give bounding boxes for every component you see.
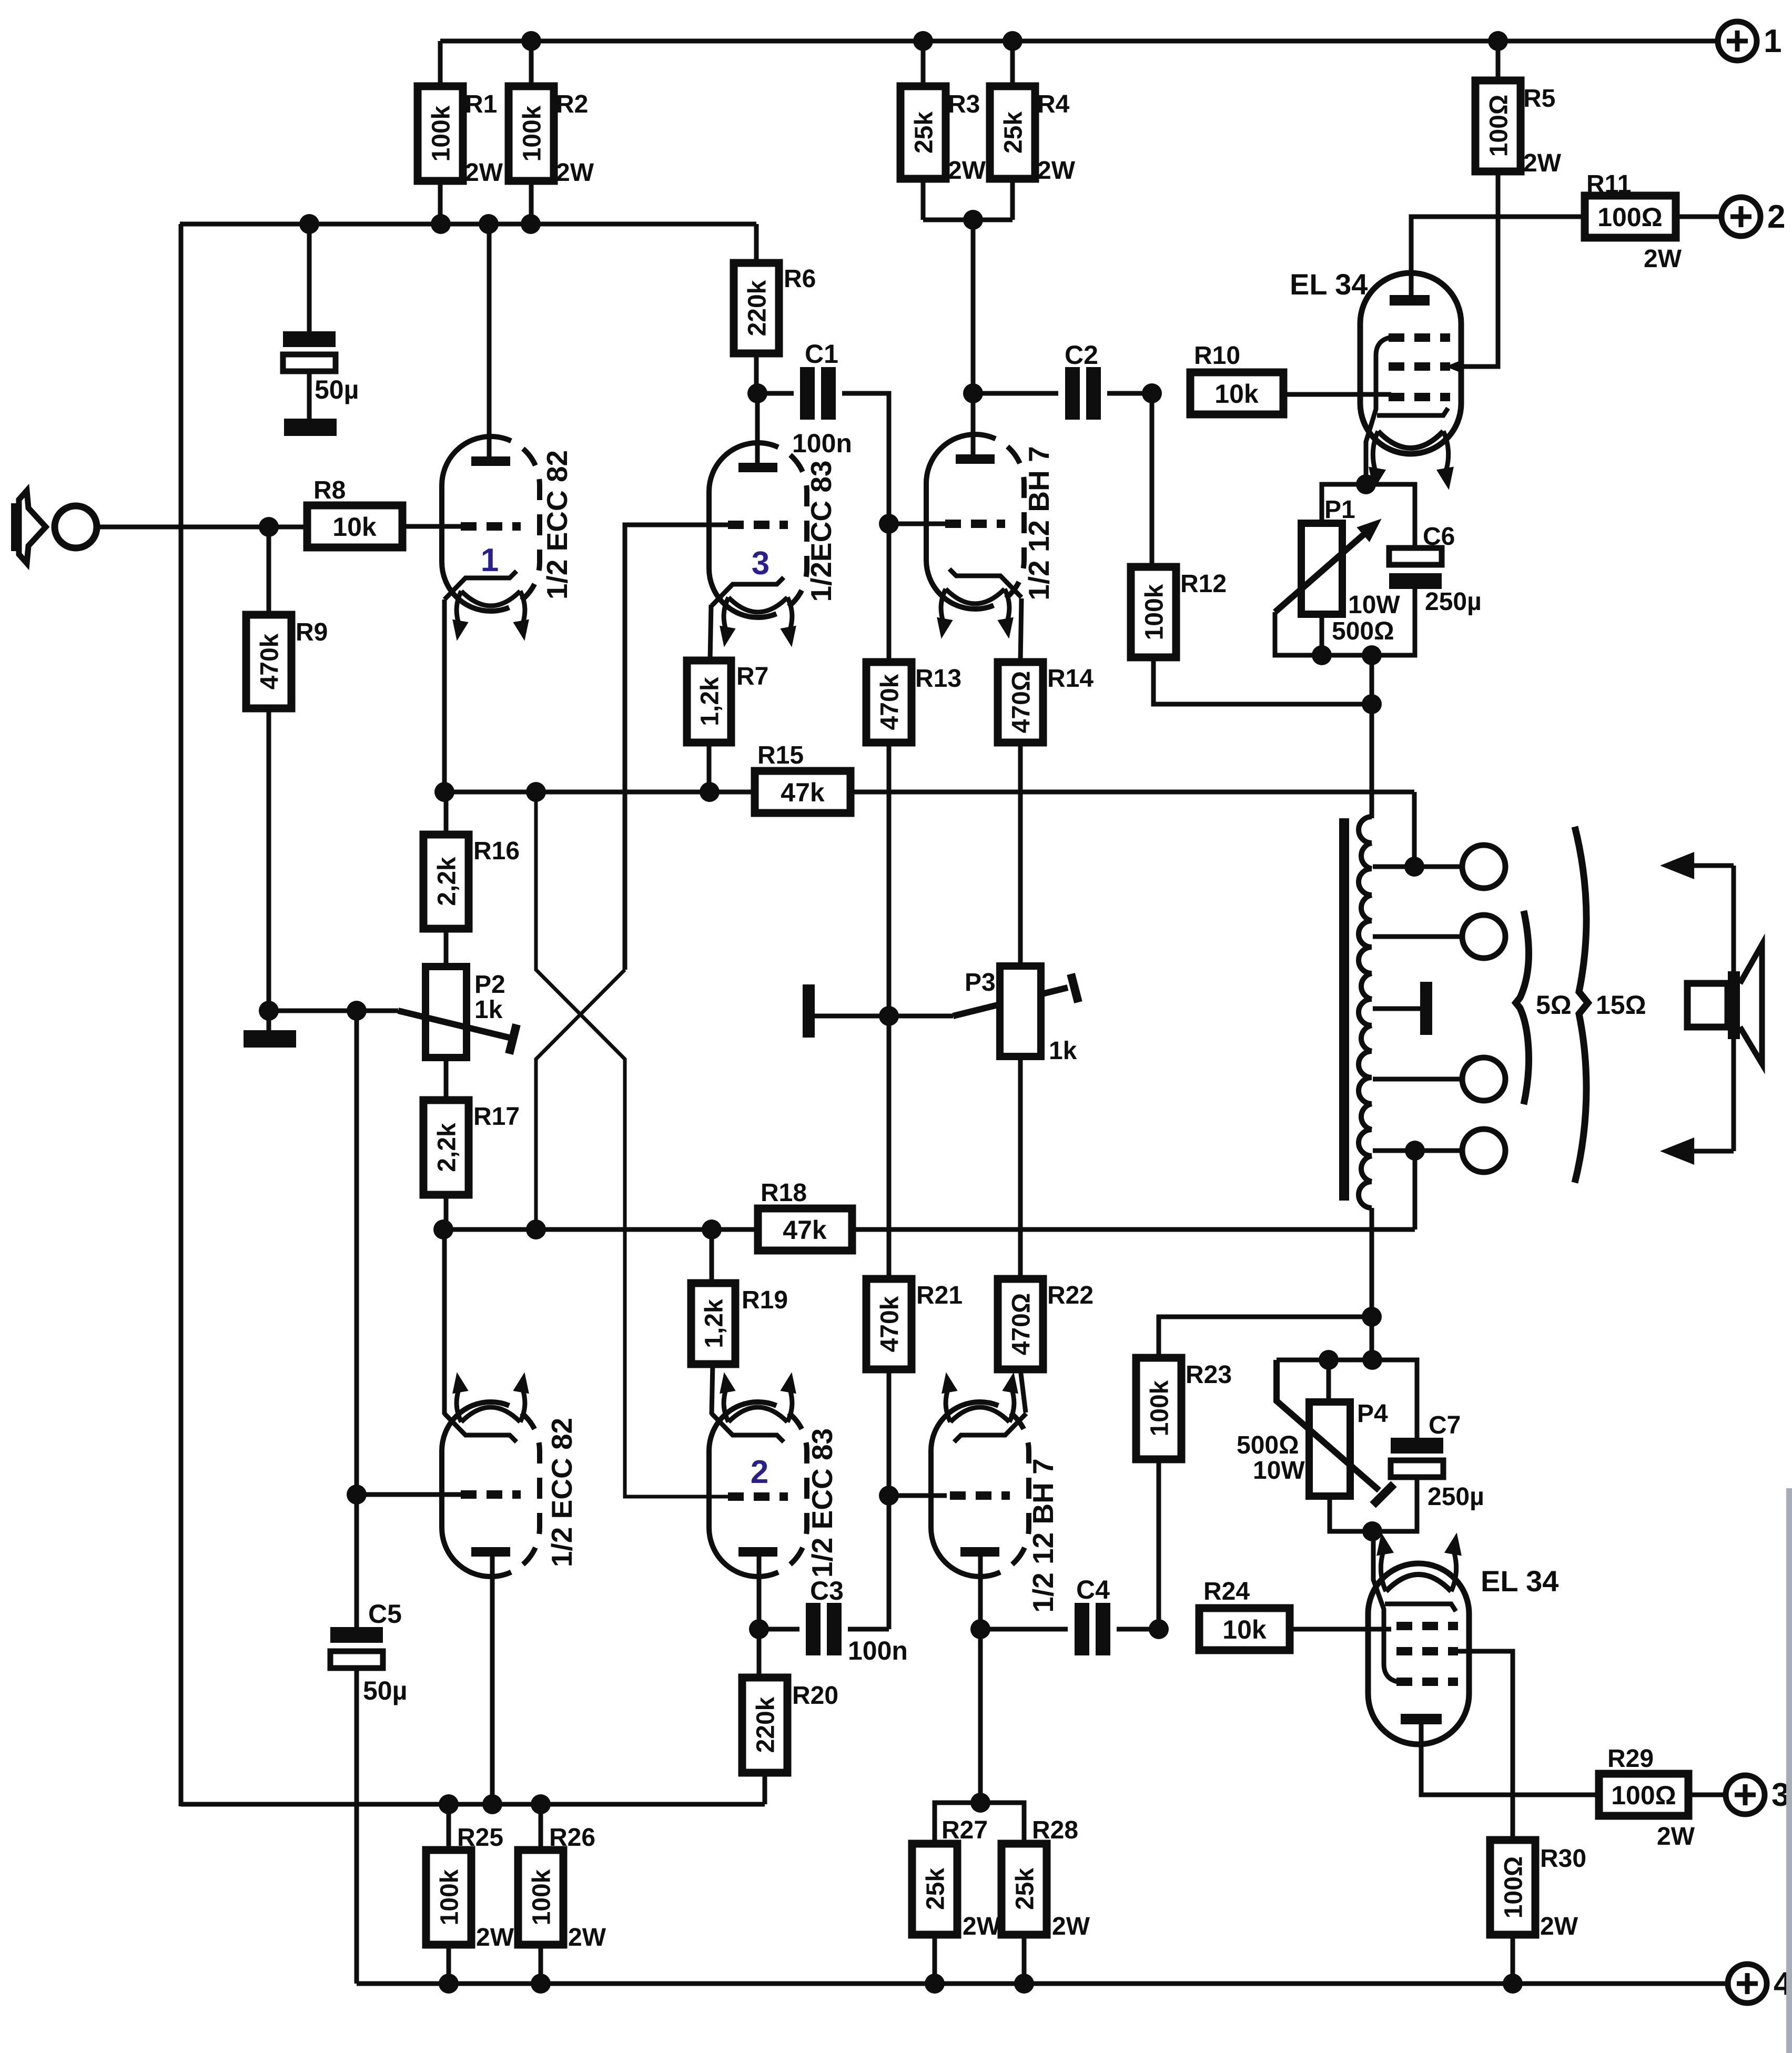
P4 bottom rail	[1330, 1477, 1417, 1531]
wire R5 to U1 g2	[1460, 171, 1498, 367]
svg-text:100n: 100n	[848, 1636, 908, 1665]
node rail/V2 anode	[482, 1794, 502, 1814]
tube V6 12BH7 lower	[931, 1402, 980, 1577]
wire R24 to U2 g1	[1290, 1627, 1391, 1632]
U1 smile arc	[1378, 431, 1443, 448]
svg-text:R5: R5	[1523, 85, 1555, 113]
wire V5 cathode to R14	[1020, 598, 1021, 662]
svg-text:47k: 47k	[781, 778, 825, 807]
svg-text:470k: 470k	[876, 1296, 904, 1352]
U2 smile arc	[1386, 1574, 1451, 1591]
resistor R23	[1136, 1358, 1181, 1459]
P3 wiper lead	[889, 1014, 953, 1019]
node P3 gnd junction	[879, 1006, 899, 1026]
V1 grid dashes	[461, 522, 521, 531]
svg-text:R12: R12	[1180, 570, 1227, 598]
node V1 cathode/rail	[434, 782, 454, 802]
wire V6 grid entry	[889, 1493, 947, 1498]
svg-text:EL 34: EL 34	[1290, 268, 1368, 301]
svg-text:R23: R23	[1186, 1361, 1232, 1389]
P3 wiper	[953, 988, 1068, 1016]
resistor R27	[912, 1844, 957, 1935]
svg-text:100Ω: 100Ω	[1611, 1781, 1676, 1810]
tube U2 EL34 lower envelope	[1368, 1563, 1469, 1744]
resistor R15	[755, 771, 851, 813]
svg-text:2W: 2W	[476, 1924, 514, 1952]
wire C1 left lead	[757, 391, 794, 396]
U2 g3 dashes	[1396, 1678, 1458, 1686]
svg-text:R29: R29	[1607, 1745, 1654, 1773]
wire C5 riser	[355, 1011, 359, 1628]
svg-text:5Ω: 5Ω	[1536, 990, 1572, 1020]
wire V3 grid to X	[625, 525, 728, 970]
node V5 grid/R13	[879, 514, 899, 534]
node rail/R2	[521, 31, 541, 51]
potentiometer P2 body	[426, 967, 467, 1058]
node rail4/R27	[925, 1974, 945, 1994]
speaker driver bar	[1728, 971, 1740, 1039]
speaker feed top arrow	[1689, 863, 1734, 868]
speaker feed bottom arrow	[1689, 1149, 1734, 1154]
resistor R11	[1585, 196, 1676, 238]
svg-text:1/2 ECC 82: 1/2 ECC 82	[545, 1418, 578, 1567]
wire tap gnd	[1373, 1007, 1421, 1011]
svg-text:47k: 47k	[783, 1215, 827, 1245]
wire tap4 riser	[1413, 1151, 1418, 1229]
node U2 cathode	[1362, 1521, 1382, 1541]
svg-text:2,2k: 2,2k	[433, 1123, 461, 1172]
svg-text:C6: C6	[1423, 523, 1455, 551]
wire R27 bottom	[933, 1935, 937, 1984]
U1 g3 dashes	[1389, 333, 1450, 342]
wire P2-R17	[444, 1058, 449, 1100]
wire R20 bottom stub	[763, 1773, 767, 1804]
wire R10 to EL34 g1	[1283, 392, 1391, 397]
wire tap4	[1373, 1149, 1464, 1153]
U2 g2 dashes	[1396, 1647, 1458, 1655]
wire V2 grid entry	[357, 1492, 463, 1497]
wire U2 cathode stub	[1371, 1531, 1376, 1564]
resistor R22	[998, 1279, 1043, 1369]
svg-text:220k: 220k	[752, 1696, 779, 1753]
svg-text:25k: 25k	[910, 111, 938, 154]
svg-text:2: 2	[1767, 199, 1785, 235]
svg-text:R9: R9	[296, 618, 328, 646]
svg-text:C2: C2	[1065, 340, 1098, 370]
wire R9 bottom	[267, 708, 271, 1011]
wire C5 bottom tail	[355, 1668, 359, 1984]
wire R1 bottom stub	[438, 181, 443, 224]
node P4 top	[1319, 1350, 1339, 1370]
wire V4 anode drop	[757, 1547, 762, 1629]
svg-text:250µ: 250µ	[1427, 1483, 1484, 1511]
node V3 anode/C1	[747, 383, 767, 403]
V2 grid dashes	[461, 1490, 521, 1499]
wire screen-supply rail y426	[180, 222, 756, 227]
svg-text:R6: R6	[784, 265, 816, 293]
svg-text:10k: 10k	[332, 512, 377, 542]
wire R28 bottom	[1022, 1935, 1027, 1984]
U2 cathode bar	[1385, 1604, 1456, 1611]
P4 wiper T-bar	[1373, 1484, 1394, 1505]
svg-text:R7: R7	[736, 663, 768, 690]
terminal tap4 circle	[1462, 1129, 1505, 1172]
wire gnd stub	[267, 1011, 271, 1031]
node tap4	[1405, 1141, 1425, 1161]
wire R7 bottom	[707, 743, 712, 792]
resistor R29	[1599, 1774, 1688, 1816]
wire V2 cathode rise	[442, 1229, 447, 1415]
wire V5 grid entry	[889, 522, 947, 526]
P4 top rail	[1277, 1360, 1417, 1440]
svg-text:100Ω: 100Ω	[1485, 95, 1513, 157]
svg-text:R21: R21	[916, 1282, 963, 1309]
wire R23 link	[1159, 1317, 1372, 1360]
terminal 1	[1718, 22, 1757, 60]
V5 grid dashes	[945, 520, 1005, 528]
capacitor C4	[1075, 1603, 1089, 1655]
U2 g1 dashes	[1396, 1622, 1458, 1630]
wire U1 anode to R11	[1411, 217, 1585, 295]
svg-text:1/2 12 BH 7: 1/2 12 BH 7	[1027, 1458, 1059, 1613]
svg-text:1/2 ECC 82: 1/2 ECC 82	[541, 450, 573, 599]
U1 heater arrow left	[1373, 431, 1378, 471]
svg-text:R15: R15	[757, 741, 804, 769]
wire C2 right lead	[1107, 391, 1152, 396]
wire R23 drop	[1157, 1459, 1161, 1629]
svg-text:C1: C1	[805, 339, 838, 369]
node EL34 grid node	[1142, 383, 1162, 403]
node tap1	[1404, 857, 1424, 877]
transformer winding	[1359, 817, 1372, 1208]
P4 wiper	[1277, 1360, 1379, 1490]
resistor R30	[1490, 1840, 1535, 1935]
capacitor C2	[1065, 367, 1080, 420]
V6 grid dashes	[950, 1491, 1010, 1500]
svg-text:10W: 10W	[1348, 591, 1400, 619]
resistor R25	[426, 1850, 471, 1945]
wire primary top corner	[1412, 792, 1417, 867]
terminal 2	[1722, 197, 1760, 236]
svg-text:100k: 100k	[436, 1869, 463, 1925]
svg-text:2W: 2W	[465, 159, 503, 187]
resistor R9 top lead	[267, 527, 271, 615]
svg-text:1/2ECC 83: 1/2ECC 83	[805, 460, 837, 602]
svg-text:2W: 2W	[963, 1913, 1001, 1940]
svg-text:R4: R4	[1037, 90, 1070, 118]
svg-text:R8: R8	[313, 476, 346, 504]
wire C3 left lead	[759, 1627, 799, 1632]
wire R8 to V1 grid	[402, 524, 463, 529]
wire drop to transformer	[1370, 655, 1374, 818]
svg-text:R2: R2	[556, 90, 588, 118]
svg-text:2W: 2W	[568, 1924, 606, 1952]
svg-text:R14: R14	[1047, 665, 1094, 693]
svg-text:R26: R26	[549, 1824, 595, 1852]
node rail4/R26	[531, 1974, 551, 1994]
node rail/R5	[1488, 31, 1508, 51]
svg-text:1/2 12 BH 7: 1/2 12 BH 7	[1022, 446, 1055, 601]
resistor R20 top	[757, 1629, 762, 1680]
resistor R28	[1001, 1844, 1047, 1935]
node V5 anode/C2	[963, 383, 983, 403]
wire R13 bottom long	[887, 743, 892, 1279]
node cathode feedback join	[1362, 694, 1382, 714]
svg-text:R27: R27	[941, 1816, 988, 1844]
svg-text:R10: R10	[1194, 342, 1240, 370]
capacitor C1	[800, 367, 815, 420]
node V2 grid	[347, 1485, 367, 1505]
svg-text:100n: 100n	[792, 429, 852, 458]
wire R6 bottom stub	[754, 353, 759, 393]
capacitor 50u top-left	[283, 331, 336, 347]
wire U2 g2 to R30	[1458, 1651, 1513, 1842]
cathode rail upper	[444, 790, 755, 795]
node rail2/V1 anode	[479, 214, 499, 234]
wire R4 top stub	[1010, 41, 1015, 88]
svg-text:2: 2	[751, 1454, 768, 1490]
U2 internal g3-cathode link	[1373, 1531, 1398, 1682]
wire V2 anode drop	[490, 1556, 495, 1804]
svg-text:R28: R28	[1032, 1816, 1078, 1844]
resistor R16 top stub	[444, 792, 449, 837]
input arrow symbol	[11, 503, 19, 551]
svg-text:470k: 470k	[256, 633, 284, 689]
terminal 3	[1726, 1775, 1765, 1814]
svg-text:500Ω: 500Ω	[1237, 1431, 1299, 1459]
wire R13 top lead	[887, 524, 892, 662]
node R9/ground	[259, 1001, 279, 1021]
U1 g2 dashes	[1389, 362, 1450, 371]
wire R25 bottom	[447, 1945, 451, 1984]
wire R21 bottom	[887, 1369, 892, 1629]
resistor R6	[734, 263, 779, 353]
scan edge artifact right	[1786, 1488, 1792, 2053]
wire R2 bottom stub	[529, 181, 534, 224]
wire V3 cathode to R7	[710, 605, 711, 660]
wire V5 anode riser	[971, 220, 976, 454]
capacitor C5	[330, 1627, 383, 1643]
resistor R19 top stub	[710, 1229, 714, 1285]
wire P1 bottom rail	[1275, 589, 1415, 655]
node screen tap join	[1362, 1307, 1382, 1327]
wire input to R8	[97, 525, 309, 530]
transformer primary top rail from R15	[851, 790, 1414, 795]
anode supply rail lower	[181, 1802, 765, 1807]
resistor R7	[687, 660, 731, 743]
U2 heater arrow left	[1381, 1551, 1386, 1591]
wire R2 top stub	[529, 41, 534, 88]
wire cathode to C6	[1366, 484, 1415, 550]
ground bar P3	[803, 984, 815, 1038]
resistor R9	[246, 615, 291, 708]
wire P1 bottom stub	[1320, 614, 1324, 655]
wire R3 top stub	[921, 41, 926, 88]
wire bridge right	[980, 1803, 1024, 1846]
svg-text:1,2k: 1,2k	[696, 677, 724, 726]
wire R25 top stub	[447, 1804, 451, 1852]
node rail/R4	[1003, 31, 1022, 51]
svg-text:R25: R25	[457, 1824, 503, 1852]
wire C3 to V6 grid riser	[848, 1627, 889, 1632]
P1 wiper arrow	[1275, 535, 1363, 612]
svg-text:C4: C4	[1076, 1575, 1110, 1604]
resistor R5	[1475, 80, 1521, 171]
svg-text:15Ω: 15Ω	[1596, 990, 1646, 1020]
svg-text:1,2k: 1,2k	[700, 1299, 728, 1348]
svg-text:470Ω: 470Ω	[1007, 1293, 1035, 1356]
resistor R12	[1131, 567, 1176, 657]
node rail/R26	[531, 1794, 551, 1814]
bottom ground rail	[357, 1981, 1727, 1986]
resistor R16	[423, 835, 469, 929]
svg-text:R13: R13	[915, 665, 961, 693]
node R30/rail4	[1503, 1974, 1523, 1994]
svg-text:100k: 100k	[1146, 1380, 1173, 1436]
U2 heater arrow right	[1451, 1551, 1456, 1591]
wire U2 anode down	[1421, 1724, 1599, 1795]
arrow into g2	[1445, 359, 1463, 373]
node V6 grid	[879, 1486, 899, 1506]
wire gnd to P3 junction	[815, 1014, 889, 1019]
wire R26 top stub	[539, 1804, 543, 1852]
wire U1 cathode stub	[1364, 475, 1369, 484]
wire C1 to V5 grid	[842, 393, 889, 524]
resistor R18	[758, 1208, 852, 1251]
svg-text:EL 34: EL 34	[1481, 1564, 1558, 1598]
svg-text:2,2k: 2,2k	[433, 857, 461, 906]
potentiometer P1 body	[1301, 523, 1342, 614]
svg-text:2W: 2W	[1523, 149, 1562, 177]
svg-text:2W: 2W	[1052, 1913, 1090, 1940]
svg-text:2W: 2W	[1037, 157, 1076, 185]
wire P3 bottom	[1018, 1056, 1023, 1279]
node R3R4 join	[963, 210, 983, 230]
wire R12 riser	[1150, 393, 1155, 569]
svg-text:1: 1	[1764, 23, 1781, 59]
resistor R26	[518, 1850, 563, 1945]
tube U1 EL34 upper envelope	[1360, 273, 1461, 454]
wire R17 bottom stub	[444, 1195, 449, 1229]
wire tap2	[1373, 934, 1464, 939]
node V4 anode/C3	[749, 1619, 769, 1639]
wire R19 to V4 cathode	[712, 1364, 713, 1415]
U2 anode bar	[1401, 1714, 1442, 1724]
svg-text:2W: 2W	[1657, 1823, 1695, 1851]
svg-text:3: 3	[752, 545, 770, 582]
svg-text:220k: 220k	[743, 280, 771, 336]
node rail/R3	[913, 31, 933, 51]
wire cap to ground	[307, 371, 312, 420]
wire R16-P2	[444, 929, 449, 969]
input jack circle	[55, 506, 97, 548]
wire V6 anode drop	[978, 1547, 983, 1629]
feedback rail lower	[852, 1227, 1415, 1232]
tube V4 ECC83 lower	[709, 1402, 758, 1577]
svg-text:50µ: 50µ	[363, 1676, 407, 1705]
P2 wiper	[398, 1011, 511, 1038]
node EL34 lower grid node	[1149, 1619, 1169, 1639]
potentiometer P4 body	[1309, 1402, 1350, 1496]
resistor R3	[900, 86, 946, 179]
node R27R28 bridge	[970, 1793, 990, 1813]
svg-text:100k: 100k	[518, 105, 546, 161]
wire bridge left	[935, 1803, 980, 1846]
tube V1 ECC82 upper	[442, 436, 491, 611]
svg-text:10W: 10W	[1253, 1457, 1305, 1485]
resistor R20	[742, 1678, 787, 1773]
capacitor C6	[1389, 573, 1442, 589]
wire R22 to V6 cathode	[1020, 1369, 1026, 1412]
wire R12 to cathode node	[1153, 657, 1372, 704]
wire top B+ rail	[440, 39, 1718, 44]
svg-text:R30: R30	[1540, 1845, 1586, 1873]
node input/R9	[259, 517, 279, 537]
resistor R19	[691, 1283, 735, 1364]
svg-text:250µ: 250µ	[1425, 588, 1482, 616]
svg-text:2W: 2W	[948, 157, 986, 185]
tube V2 ECC82 lower	[442, 1402, 491, 1577]
resistor R17	[423, 1100, 469, 1195]
resistor R14	[998, 662, 1043, 743]
node rail4/R28	[1014, 1974, 1034, 1994]
svg-text:25k: 25k	[1011, 1868, 1039, 1910]
svg-text:2W: 2W	[556, 159, 594, 187]
wire R1 top stub	[438, 41, 443, 88]
wire winding bottom drop	[1370, 1208, 1374, 1317]
terminal 4	[1728, 1964, 1767, 2003]
wire C2 left lead	[973, 391, 1058, 396]
wire R6 top stub	[754, 224, 759, 265]
speaker cone	[1740, 944, 1762, 1064]
capacitor C7	[1391, 1438, 1443, 1454]
node rail/X riser	[526, 782, 546, 802]
wire V3 anode drop	[755, 393, 760, 465]
resistor R21	[866, 1279, 912, 1369]
resistor R13	[866, 662, 912, 743]
node rail4/R25	[439, 1974, 459, 1994]
U1 g1 dashes	[1389, 393, 1450, 401]
svg-text:100k: 100k	[1140, 584, 1168, 640]
V3 grid dashes	[728, 521, 788, 529]
U1 internal g3-cathode link	[1366, 338, 1390, 475]
svg-text:1/2 ECC 83: 1/2 ECC 83	[806, 1428, 838, 1578]
wire tap1	[1373, 865, 1464, 869]
svg-text:1k: 1k	[474, 996, 503, 1024]
svg-text:2W: 2W	[1644, 245, 1682, 273]
X coupling line A	[536, 792, 732, 1497]
wire R30 bottom	[1511, 1935, 1515, 1984]
svg-text:R17: R17	[473, 1103, 520, 1131]
node U1 cathode	[1356, 474, 1376, 494]
wire R3 bottom stub	[921, 179, 926, 220]
wire R11 to terminal 2	[1676, 215, 1721, 219]
svg-text:R22: R22	[1047, 1282, 1094, 1309]
resistor R10	[1190, 372, 1283, 414]
node P4 rail drop	[1362, 1350, 1382, 1370]
ground bar transformer CT	[1420, 982, 1432, 1035]
wire C4 right lead	[1117, 1627, 1159, 1632]
terminal tap1 circle	[1462, 845, 1505, 888]
svg-text:470k: 470k	[876, 674, 904, 730]
U1 heater arrow right	[1443, 431, 1449, 471]
svg-text:100k: 100k	[427, 105, 455, 161]
resistor R4	[990, 86, 1035, 179]
svg-text:2W: 2W	[1540, 1913, 1578, 1940]
svg-text:R20: R20	[792, 1682, 838, 1710]
potentiometer P3 body	[1000, 966, 1041, 1056]
resistor R2	[509, 86, 554, 181]
